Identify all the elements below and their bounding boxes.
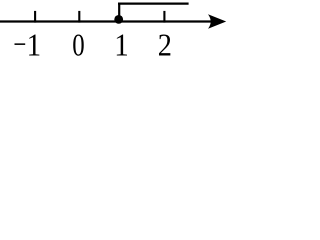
- svg-text:0: 0: [72, 29, 84, 59]
- arrowhead at right end of axis: [208, 14, 226, 29]
- ray above axis from 1 to the right: [118, 2, 189, 4]
- tick at 2: [163, 11, 165, 23]
- filled endpoint dot at 1: [114, 15, 123, 24]
- number line axis: [0, 20, 214, 22]
- tick at 0: [78, 11, 80, 23]
- svg-text:1: 1: [114, 27, 128, 59]
- svg-text:1: 1: [27, 27, 41, 59]
- svg-text:−: −: [13, 26, 26, 59]
- svg-text:2: 2: [158, 28, 172, 59]
- vertical connector from dot up to ray: [118, 4, 120, 22]
- tick at -1: [34, 11, 36, 23]
